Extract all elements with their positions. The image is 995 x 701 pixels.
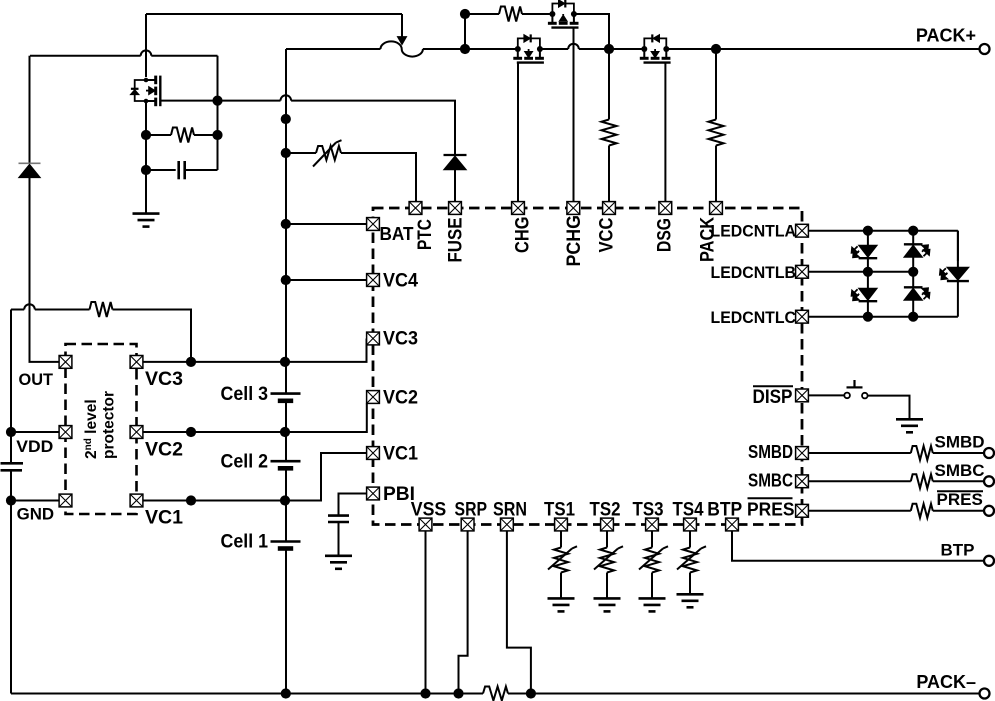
- pin SMBC: [796, 475, 809, 488]
- svg-text:DISP: DISP: [753, 387, 793, 408]
- svg-text:SRN: SRN: [493, 500, 527, 521]
- wire VSS to bottom rail: [425, 531, 427, 694]
- resistor R1 pre-charge: [465, 13, 499, 15]
- svg-text:PTC: PTC: [414, 219, 436, 250]
- LED D4 col1 bottom: [867, 272, 869, 288]
- pin CHG: [512, 202, 525, 215]
- wire hop over diode branch: [24, 304, 35, 309]
- capacitor C9 on left rail: [1, 462, 24, 465]
- wire left rail lower to PACK- rail: [10, 470, 12, 693]
- capacitor C1 PBI: [328, 514, 349, 517]
- wire Q3 gate to DSG pin: [664, 63, 666, 202]
- wire VDD to rail: [11, 431, 59, 433]
- battery Cell 1: [271, 540, 301, 543]
- pin BTP: [726, 518, 739, 531]
- node row C col2: [908, 312, 918, 322]
- pin PACK: [710, 202, 723, 215]
- node rail BAT row: [281, 219, 291, 229]
- pin protector VC3: [130, 356, 143, 369]
- svg-text:SMBC: SMBC: [935, 461, 985, 480]
- pin PBI: [367, 487, 380, 500]
- thermistor RT3 TS3: [651, 531, 653, 548]
- svg-text:Cell 1: Cell 1: [221, 531, 269, 553]
- wire PBI to capacitor: [339, 494, 367, 516]
- wire main rail fuse to CHG FET: [423, 48, 518, 50]
- svg-text:SRP: SRP: [455, 500, 488, 521]
- resistor R8 PRES: [809, 510, 911, 512]
- svg-text:VCC: VCC: [596, 218, 618, 253]
- wire bottom rail PACK-: [11, 693, 483, 695]
- wire LEDCNTLA row: [809, 230, 958, 232]
- svg-text:protector: protector: [101, 391, 118, 459]
- node VC3 row rail: [280, 357, 290, 367]
- svg-text:BAT: BAT: [380, 224, 414, 244]
- transistor Q1 CHG FET: [513, 34, 544, 62]
- thermistor RT4 TS4: [689, 531, 691, 548]
- node R13 right: [212, 130, 222, 140]
- svg-text:VC4: VC4: [383, 270, 418, 291]
- transistor Q2 PCHG FET: [548, 0, 579, 28]
- LED D5 col2 top: [912, 231, 914, 246]
- terminal SMBD: [984, 448, 994, 458]
- node rail cell bottom: [281, 688, 291, 698]
- wire branch vertical: [464, 14, 466, 49]
- thermistor RT1 TS1: [560, 531, 562, 548]
- node row A col1: [863, 226, 873, 236]
- svg-text:TS3: TS3: [633, 500, 664, 521]
- wire protector OUT drive line with hop over Q4 drain: [30, 55, 218, 57]
- wire protector VC2 row: [143, 404, 367, 433]
- svg-text:DSG: DSG: [654, 218, 676, 252]
- svg-text:LEDCNTLA: LEDCNTLA: [711, 223, 797, 241]
- svg-text:TS4: TS4: [673, 500, 704, 521]
- node row C col1: [863, 312, 873, 322]
- wire BTP pin to terminal: [732, 531, 984, 561]
- node rail VSS: [420, 688, 430, 698]
- svg-text:VC1: VC1: [383, 443, 418, 464]
- svg-text:BTP: BTP: [941, 540, 975, 559]
- resistor R3 PACK sense: [715, 49, 717, 120]
- wire hop over x146: [141, 50, 152, 55]
- wire DISP pin to switch: [809, 394, 844, 396]
- svg-text:PACK+: PACK+: [916, 26, 976, 46]
- resistor R12 protector supply: [11, 309, 90, 311]
- transistor Q4 fuse-blow FET: [130, 76, 160, 107]
- wire top from fuse-blow FET drain to fuse arrow: [146, 13, 402, 15]
- node VDD rail: [6, 427, 16, 437]
- node R13 left: [141, 130, 151, 140]
- fuse blow arrow: [401, 14, 403, 37]
- IC U1 battery monitor dashed boundary: [373, 208, 802, 525]
- svg-text:VC3: VC3: [145, 369, 183, 390]
- svg-text:VSS: VSS: [411, 500, 447, 521]
- pin VC2: [367, 391, 380, 404]
- node rail PTC row: [281, 148, 291, 158]
- wire rail DSG FET to PACK+: [666, 48, 980, 50]
- wire Q4 source to ground: [145, 101, 147, 213]
- LED D6 col2 bottom: [912, 272, 914, 288]
- wire GND to rail: [11, 500, 59, 502]
- node rail below hop: [281, 114, 291, 124]
- node C8 left: [141, 165, 151, 175]
- svg-text:VDD: VDD: [16, 438, 53, 456]
- pin LEDCNTLC: [796, 310, 809, 323]
- resistor R7 SMBC: [809, 480, 911, 482]
- wire LEDCNTLC row: [809, 316, 958, 318]
- svg-text:TS2: TS2: [590, 500, 621, 521]
- svg-text:TS1: TS1: [544, 500, 575, 521]
- pin PRES: [796, 504, 809, 517]
- fuse F1 chemical fuse: [381, 41, 423, 56]
- wire rail hop over PCHG gate: [568, 44, 579, 49]
- resistor R6 SMBD: [809, 452, 911, 454]
- node PACK branch: [711, 44, 721, 54]
- svg-text:BTP: BTP: [707, 500, 742, 521]
- terminal BTP: [984, 556, 994, 566]
- svg-text:Cell 3: Cell 3: [221, 383, 269, 405]
- switch S1 DISP pushbutton: [844, 380, 867, 398]
- diode D2 to FUSE pin: [444, 154, 467, 156]
- svg-text:FUSE: FUSE: [445, 218, 467, 263]
- svg-text:2nd level: 2nd level: [83, 399, 100, 459]
- ground PBI cap: [325, 556, 352, 569]
- 2nd level protector box U2: [66, 344, 137, 514]
- svg-text:SMBD: SMBD: [748, 442, 793, 462]
- pin VCC: [603, 202, 616, 215]
- wire right LED branch: [957, 231, 959, 261]
- pin GND: [59, 494, 72, 507]
- svg-text:OUT: OUT: [19, 371, 54, 389]
- svg-text:CHG: CHG: [512, 217, 534, 254]
- pin VSS: [419, 518, 432, 531]
- svg-text:GND: GND: [17, 506, 55, 524]
- svg-text:LEDCNTLC: LEDCNTLC: [711, 309, 797, 327]
- pin FUSE: [449, 202, 462, 215]
- node row B col1: [863, 267, 873, 277]
- pin protector VC2: [130, 426, 143, 439]
- resistor R11 current sense: [483, 687, 508, 701]
- pin PCHG: [567, 202, 580, 215]
- svg-text:SMBC: SMBC: [748, 471, 793, 491]
- pin TS4: [684, 518, 697, 531]
- terminal PACK+: [980, 44, 990, 54]
- pin TS3: [646, 518, 659, 531]
- pin SRN: [501, 518, 514, 531]
- pin LEDCNTLB: [796, 265, 809, 278]
- ground below Q4: [133, 214, 160, 227]
- node VC1 row rail: [280, 495, 290, 505]
- resistor R2 VCC filter: [608, 49, 610, 120]
- wire rail CHG FET to VCC node with hop over Q2 gate: [540, 48, 609, 50]
- terminal PRES: [984, 506, 994, 516]
- pin VC1: [367, 447, 380, 460]
- wire SRP to sense resistor left: [459, 531, 468, 694]
- pin OUT: [59, 356, 72, 369]
- node GND rail: [6, 495, 16, 505]
- node row A col2: [908, 226, 918, 236]
- wire BAT row: [286, 223, 367, 225]
- wire hop over cell rail: [281, 95, 292, 100]
- wire Q1 gate to CHG pin: [517, 63, 519, 202]
- wire VC4 row: [286, 279, 367, 281]
- pin LEDCNTLA: [796, 224, 809, 237]
- LED D7 right: [957, 231, 959, 268]
- node pre-charge branch top: [460, 9, 470, 19]
- svg-text:LEDCNTLB: LEDCNTLB: [711, 264, 797, 282]
- wire cell stack rail: [285, 49, 287, 694]
- wire main rail BAT+ to fuse: [286, 48, 381, 50]
- wire node vertical x218: [217, 56, 219, 170]
- ground TS3: [639, 598, 666, 611]
- node VC2 row rail: [280, 427, 290, 437]
- pin DSG: [659, 202, 672, 215]
- pin protector VC1: [130, 494, 143, 507]
- LED D3 col1 top: [867, 231, 869, 246]
- wire Q2 gate to PCHG pin: [573, 28, 575, 202]
- wire SRN to sense resistor right: [507, 531, 531, 694]
- pin VDD: [59, 426, 72, 439]
- pin SMBD: [796, 447, 809, 460]
- pin DISP: [796, 389, 809, 402]
- pin VC3: [367, 332, 380, 345]
- node VC2 row R12-branch column: [186, 427, 196, 437]
- wire branch to rail right: [574, 14, 609, 49]
- wire fuse-blow FET drain vertical: [145, 14, 147, 77]
- wire switch to ground: [868, 396, 910, 419]
- pin VC4: [367, 274, 380, 287]
- capacitor C8 gate-source: [146, 169, 176, 171]
- pin SRP: [461, 518, 474, 531]
- battery Cell 2: [271, 460, 301, 463]
- node rail SRP: [453, 688, 463, 698]
- svg-text:VC3: VC3: [383, 328, 418, 349]
- pin TS2: [601, 518, 614, 531]
- node rail SRN: [526, 688, 536, 698]
- svg-text:VC2: VC2: [383, 387, 418, 408]
- wire Q4 gate to node: [160, 100, 217, 102]
- wire protector VC1 row: [143, 453, 367, 501]
- node VCC branch: [604, 44, 614, 54]
- wire left rail upper: [10, 310, 12, 464]
- wire LEDCNTLB row: [809, 271, 914, 273]
- node VC1 row R12-branch column: [186, 495, 196, 505]
- wire FUSE pin drive with hop over rail: [218, 101, 456, 155]
- thermistor RT5 PTC: [286, 152, 316, 154]
- node VC3 row at R12 branch: [186, 357, 196, 367]
- node Q4 gate junction: [212, 96, 222, 106]
- svg-text:Cell 2: Cell 2: [221, 450, 269, 472]
- ground TS2: [594, 598, 621, 611]
- terminal PACK-: [980, 689, 990, 699]
- pin PTC: [409, 202, 422, 215]
- ground TS1: [548, 598, 575, 611]
- svg-text:PRES: PRES: [747, 500, 795, 520]
- svg-text:VC2: VC2: [145, 439, 183, 460]
- svg-text:PCHG: PCHG: [563, 215, 585, 267]
- wire rail VCC node to DSG FET: [609, 48, 644, 50]
- diode D1 from protector OUT: [29, 56, 31, 163]
- terminal SMBC: [984, 476, 994, 486]
- ground TS4: [677, 594, 704, 607]
- pin BAT: [367, 218, 380, 231]
- node pre-charge branch bottom: [460, 44, 470, 54]
- transistor Q3 DSG FET: [640, 34, 671, 62]
- pin TS1: [555, 518, 568, 531]
- svg-text:SMBD: SMBD: [935, 433, 985, 452]
- svg-text:VC1: VC1: [145, 507, 183, 528]
- svg-text:PRES: PRES: [937, 490, 983, 509]
- resistor R13 gate-source: [146, 134, 171, 136]
- wire protector VC3 row: [143, 339, 367, 362]
- ground at DISP switch: [896, 419, 923, 432]
- battery Cell 3: [271, 392, 301, 395]
- thermistor RT2 TS2: [606, 531, 608, 548]
- svg-text:PACK–: PACK–: [916, 672, 976, 692]
- node row B col2: [908, 267, 918, 277]
- node rail VC4 row: [281, 275, 291, 285]
